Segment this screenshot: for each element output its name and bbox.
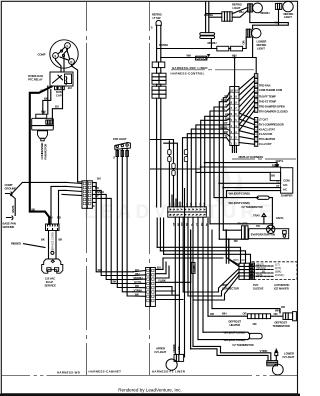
control board connector xyxy=(168,207,207,217)
wire corner x163.5 xyxy=(164,143,178,207)
OPTION box xyxy=(196,56,207,60)
wire relay to BK thick left xyxy=(30,87,52,225)
svg-text:C: C xyxy=(66,44,68,48)
svg-text:YL/BK: YL/BK xyxy=(158,278,166,282)
defrost terminator body xyxy=(283,313,293,320)
ff thermistor capsule xyxy=(256,196,269,199)
power plug body xyxy=(42,259,63,273)
wire refrig sw lead 2 xyxy=(160,25,162,57)
svg-text:GN/YL: GN/YL xyxy=(276,216,284,220)
svg-text:HARNESS-WD: HARNESS-WD xyxy=(57,370,80,374)
svg-text:BU: BU xyxy=(97,177,101,181)
svg-text:BK: BK xyxy=(41,88,45,92)
wire cap drop RD/WH xyxy=(210,39,212,49)
lower refrig bulb socket xyxy=(246,29,251,37)
nested wire 5 xyxy=(205,114,230,208)
plug prong slots xyxy=(47,268,59,272)
overload PTC relay box xyxy=(50,72,73,86)
svg-text:BK: BK xyxy=(32,208,36,212)
refrig light bulb 2 socket xyxy=(275,3,281,9)
pin strip lower xyxy=(254,118,257,147)
svg-text:BK: BK xyxy=(271,174,275,178)
condenser fan motor body xyxy=(32,118,54,130)
bottom title bar xyxy=(0,394,300,396)
wire frz switch 1 xyxy=(117,149,133,288)
svg-text:PK: PK xyxy=(256,224,260,228)
svg-text:LIGHT: LIGHT xyxy=(233,6,241,10)
refrig light bulb 1 glass xyxy=(253,3,263,13)
svg-text:YL: YL xyxy=(276,180,280,184)
wire WH to RS1 top xyxy=(253,58,257,74)
svg-text:PK (OR): PK (OR) xyxy=(238,222,248,226)
top feed wires xyxy=(206,2,209,33)
damper YL VT wires xyxy=(219,183,280,197)
svg-text:HC: HC xyxy=(283,187,287,191)
junction dot PK feed xyxy=(225,229,227,231)
svg-text:FZ THERMISTOR: FZ THERMISTOR xyxy=(233,343,254,347)
refrig light switch dome xyxy=(156,20,161,25)
svg-text:COM: COM xyxy=(283,178,290,182)
wires bulb loop xyxy=(250,9,288,28)
svg-text:C BK: C BK xyxy=(177,346,181,352)
condenser fan motor terminal block xyxy=(46,120,53,124)
relay internal contact arm xyxy=(53,75,63,83)
wire tags above control connector xyxy=(170,202,207,206)
svg-text:TRAY: TRAY xyxy=(253,213,260,217)
relay internal PTC block xyxy=(65,74,72,84)
svg-text:Rendered by LeadVenture, Inc.: Rendered by LeadVenture, Inc. xyxy=(118,388,182,393)
svg-text:OR: OR xyxy=(243,311,247,315)
wire R into connector xyxy=(78,181,82,183)
svg-text:BU: BU xyxy=(182,202,184,206)
svg-text:FZ LIGHT: FZ LIGHT xyxy=(155,350,167,354)
junction dot PK feed 2 xyxy=(228,238,230,240)
svg-text:FZ LIGHT: FZ LIGHT xyxy=(283,355,295,359)
wire to lower refrig bulb xyxy=(243,37,247,48)
wire comp ground GN/YL xyxy=(11,195,16,216)
svg-text:LT SW: LT SW xyxy=(153,16,161,20)
svg-text:HARNESS-FZ LINER: HARNESS-FZ LINER xyxy=(152,370,186,374)
svg-text:COMP: COMP xyxy=(38,53,46,57)
svg-text:BK: BK xyxy=(41,238,45,242)
service cord lines xyxy=(49,231,57,259)
svg-text:RD: RD xyxy=(234,239,238,243)
wire WH junction to display conn xyxy=(234,58,236,87)
refrig light bulb 1 socket xyxy=(248,4,253,12)
compressor terminal C xyxy=(65,43,71,49)
long row 3 xyxy=(164,254,251,263)
svg-text:RD/WH: RD/WH xyxy=(159,43,168,47)
wire x169.4 xyxy=(168,141,170,207)
wire tray row xyxy=(210,223,272,225)
wire cord WH up xyxy=(51,186,66,224)
svg-text:GY: GY xyxy=(195,202,197,206)
wire tray down xyxy=(263,217,265,224)
svg-text:BK: BK xyxy=(135,293,139,297)
junction dot GN/YL damper xyxy=(204,162,206,164)
svg-text:RD/WH: RD/WH xyxy=(261,11,270,15)
compressor terminal R xyxy=(69,59,75,65)
connector block pair B xyxy=(152,86,166,98)
wire to damper BK block xyxy=(196,171,270,173)
svg-text:RY2-HEATER: RY2-HEATER xyxy=(259,137,275,141)
frz light switch body xyxy=(115,143,131,150)
wire compressor C to relay xyxy=(64,48,68,72)
wires into FZ connector xyxy=(133,271,146,297)
nested wire 6 xyxy=(201,119,230,207)
compressor terminal S xyxy=(53,53,59,59)
door cap element bar 1 xyxy=(200,33,215,36)
svg-text:GROUND: GROUND xyxy=(3,225,15,229)
svg-text:DISPLAY HARNESS: DISPLAY HARNESS xyxy=(239,155,264,159)
svg-text:GY: GY xyxy=(95,194,99,198)
svg-text:#1-L2 CKT: #1-L2 CKT xyxy=(259,142,272,146)
defrost heater row wire xyxy=(208,315,283,317)
svg-text:TRD-DAMPER OPEN: TRD-DAMPER OPEN xyxy=(259,104,285,108)
svg-text:RD/WH: RD/WH xyxy=(208,41,217,45)
wires display conn bottom stubs xyxy=(232,146,236,153)
svg-text:OR: OR xyxy=(241,40,245,44)
svg-text:GROUND: GROUND xyxy=(5,186,17,190)
wire BK into condenser top xyxy=(47,86,49,114)
svg-text:CAP: CAP xyxy=(56,94,62,98)
row to 9wp 1 xyxy=(183,269,239,293)
junction dot VT xyxy=(222,187,224,189)
svg-text:YL/BK: YL/BK xyxy=(192,265,196,273)
svg-text:COM-THERM COM: COM-THERM COM xyxy=(259,88,283,92)
fz thermistor capsule xyxy=(250,333,263,338)
wire tags below control connector xyxy=(174,222,209,226)
wire sw leads through blocks xyxy=(157,49,161,87)
svg-text:HARNESS-CONTROL: HARNESS-CONTROL xyxy=(171,72,205,76)
junction dot RD damper xyxy=(200,166,202,168)
connector WD-cabinet block xyxy=(82,181,92,209)
nested wire 4 xyxy=(210,108,230,224)
chain line display harness boundary xyxy=(232,158,296,160)
svg-text:#3-AC1 STAT: #3-AC1 STAT xyxy=(259,127,275,131)
svg-text:TN: TN xyxy=(200,202,202,205)
svg-text:OPTION: OPTION xyxy=(197,56,208,60)
svg-text:SERVICE: SERVICE xyxy=(45,283,57,287)
svg-text:BU: BU xyxy=(55,105,59,109)
svg-text:S: S xyxy=(113,156,115,160)
diagonals display conn to strips xyxy=(239,76,254,144)
compressor COMP circle xyxy=(50,40,78,68)
wire frz switch 2 xyxy=(122,149,133,292)
run capacitor xyxy=(55,86,65,89)
svg-text:PK: PK xyxy=(204,202,206,205)
wires control conn bottom xyxy=(157,218,163,254)
wire corner x173.5 xyxy=(150,140,173,208)
svg-text:BK: BK xyxy=(59,238,63,242)
svg-text:DAMPER: DAMPER xyxy=(281,194,293,198)
nested wire 8 xyxy=(191,129,230,207)
svg-text:THD-FZ TEMP: THD-FZ TEMP xyxy=(259,99,277,103)
svg-text:SLEEVE: SLEEVE xyxy=(253,286,264,290)
svg-text:ICE MAKER: ICE MAKER xyxy=(274,286,289,290)
wires control conn top stubs xyxy=(172,195,180,207)
ice maker dashed box xyxy=(252,262,297,280)
svg-text:OR: OR xyxy=(210,312,214,316)
svg-text:RD: RD xyxy=(272,163,276,167)
control conn pin numbers xyxy=(169,209,205,217)
wires into block xyxy=(206,14,222,18)
svg-text:WH: WH xyxy=(98,268,103,272)
svg-text:TL: TL xyxy=(222,107,226,111)
nested wire 1 xyxy=(223,92,230,230)
ff thermistor wire xyxy=(214,197,258,199)
door cap element bar 2 xyxy=(200,36,215,39)
svg-text:WH: WH xyxy=(222,311,227,315)
svg-text:S: S xyxy=(151,26,153,30)
svg-text:VT/RD: VT/RD xyxy=(260,349,268,353)
9wp connector block xyxy=(239,263,255,279)
damper motor box xyxy=(281,168,293,194)
wire run cap to condenser fan BK xyxy=(43,90,51,115)
base pan ground symbol xyxy=(7,216,14,220)
svg-text:SERVICE CORD: SERVICE CORD xyxy=(50,232,54,252)
wire left leads down to control conn xyxy=(157,98,161,207)
wire GN/YL to damper xyxy=(205,162,277,164)
wire thermistor to evap loop xyxy=(269,198,272,229)
light switch block top xyxy=(222,12,232,21)
svg-text:HARNESS-REF LINER: HARNESS-REF LINER xyxy=(172,66,208,70)
inline tag capsules on wire x169.4 xyxy=(168,150,188,176)
ice maker internal dashes xyxy=(256,266,273,276)
svg-text:VT/BK: VT/BK xyxy=(221,98,229,102)
inline tag capsules on wire x173.5 xyxy=(172,163,175,168)
defrost heater element xyxy=(247,314,270,319)
row to 9wp 2 xyxy=(188,272,239,296)
svg-text:FAN MOTOR: FAN MOTOR xyxy=(44,144,48,160)
tray symbol xyxy=(262,213,266,216)
wire PK top xyxy=(223,229,248,231)
upper fz light glass xyxy=(166,359,177,370)
nested wire 10 xyxy=(183,138,230,207)
strain relief arrow xyxy=(43,112,45,115)
junction dot YL xyxy=(218,182,220,184)
damper inner block BK xyxy=(270,172,280,180)
svg-text:OR: OR xyxy=(281,305,285,309)
wire long horizontal y169 xyxy=(150,168,199,170)
cord grommet circle xyxy=(51,251,54,254)
svg-text:LT CKT: LT CKT xyxy=(259,118,268,122)
svg-text:RD/BU: RD/BU xyxy=(220,125,228,129)
svg-text:R: R xyxy=(70,60,72,64)
display conn pin numbers xyxy=(230,89,238,146)
svg-text:VT: VT xyxy=(276,184,280,188)
chain line ref liner / control boundary xyxy=(171,69,254,71)
svg-text:BU: BU xyxy=(225,117,229,121)
wires down to 9WP xyxy=(226,230,229,263)
svg-text:TRD-FAN: TRD-FAN xyxy=(259,83,271,87)
wire frz switch 3 xyxy=(127,148,133,296)
lower fz light wires xyxy=(191,346,271,360)
svg-text:BK: BK xyxy=(262,271,266,274)
svg-text:RD: RD xyxy=(178,202,180,206)
svg-text:YL: YL xyxy=(225,103,229,107)
svg-text:(WH): (WH) xyxy=(257,274,263,277)
evap fan symbol xyxy=(267,225,275,233)
inline connector pair on RD/WH xyxy=(217,46,229,51)
defrost terminator cap xyxy=(293,312,297,321)
svg-text:2(GND): 2(GND) xyxy=(275,274,284,277)
pin strip upper xyxy=(254,74,257,113)
fz thermistor wire top xyxy=(203,332,250,334)
svg-text:YL: YL xyxy=(225,134,229,138)
svg-text:WH (DISP COND): WH (DISP COND) xyxy=(224,330,245,334)
condenser fan motor plug xyxy=(38,131,48,139)
chain line harness bottom horizontal xyxy=(2,374,297,376)
svg-text:BU: BU xyxy=(68,86,72,90)
inline connector blocks control left xyxy=(152,62,165,68)
service cord terminal block xyxy=(46,224,60,231)
svg-text:OR/BK: OR/BK xyxy=(172,344,176,353)
svg-text:RIBBED: RIBBED xyxy=(11,242,21,246)
wire connector right bundle xyxy=(92,186,133,283)
svg-text:WH: WH xyxy=(239,10,244,14)
wire cord RD up xyxy=(59,190,67,224)
svg-text:(WH): (WH) xyxy=(233,259,239,262)
inline connector pk small xyxy=(191,262,195,273)
svg-text:CONNECTOR: CONNECTOR xyxy=(222,286,239,290)
svg-text:(GN): (GN) xyxy=(241,259,246,262)
svg-text:WH: WH xyxy=(48,216,53,220)
wire RD/WH run xyxy=(157,48,217,50)
nested wire 9 xyxy=(187,134,230,207)
wires block to bulb1 xyxy=(232,8,247,18)
svg-text:WH: WH xyxy=(187,53,192,57)
upper fz light socket xyxy=(174,354,184,361)
svg-text:WH (DISP COND): WH (DISP COND) xyxy=(224,338,245,342)
wires left diagonals into connector xyxy=(62,182,82,195)
nested wire 7 xyxy=(196,125,230,208)
condenser fan motor cap xyxy=(36,114,47,118)
stub rows xyxy=(155,269,190,299)
svg-text:GN/YL: GN/YL xyxy=(11,205,15,213)
compressor internal contacts xyxy=(60,50,62,52)
svg-text:WH (DISP COND): WH (DISP COND) xyxy=(229,192,250,196)
svg-text:#4-AC2 DR: #4-AC2 DR xyxy=(259,132,272,136)
nested wire 3 xyxy=(214,103,230,198)
display board connector xyxy=(230,87,239,146)
junction dot WH line at display drop xyxy=(234,56,236,58)
connector block pair A xyxy=(152,73,166,84)
long row 2 xyxy=(160,251,245,263)
svg-text:HARNESS-CABINET: HARNESS-CABINET xyxy=(89,370,122,374)
fuse link symbol xyxy=(275,350,278,352)
frz light switch contacts xyxy=(116,145,118,147)
nested wire 2 xyxy=(219,97,230,239)
svg-text:S: S xyxy=(54,54,56,58)
wire terminator top feed xyxy=(212,309,280,313)
svg-text:WH: WH xyxy=(275,309,280,313)
inline connector bars PK xyxy=(242,226,245,239)
wire relay to condenser fan BU xyxy=(52,86,62,120)
refrig light bulb 2 glass xyxy=(283,1,293,11)
svg-text:OR: OR xyxy=(253,322,257,326)
wire WH run xyxy=(161,57,253,59)
long row 1 xyxy=(157,247,240,263)
lower fz light glass xyxy=(272,364,283,375)
svg-text:RY1-COMPRESSOR: RY1-COMPRESSOR xyxy=(259,122,284,126)
junction dot tray row xyxy=(271,223,273,225)
wire refrig sw lead 1 xyxy=(156,25,158,48)
wire upper light extra xyxy=(184,188,186,357)
evaporator fan box xyxy=(249,229,289,239)
svg-text:BU: BU xyxy=(157,265,161,269)
junction arrow on WH xyxy=(207,54,210,57)
plug hole xyxy=(51,260,54,263)
lower refrig bulb glass xyxy=(252,29,261,38)
svg-text:TERMINATOR: TERMINATOR xyxy=(273,324,290,328)
chain line harness boundary vertical left xyxy=(86,2,88,375)
comp ground symbol xyxy=(6,192,13,196)
lower fz light socket xyxy=(267,361,278,366)
wire compressor S to relay xyxy=(56,58,62,72)
svg-text:FZ THERMISTOR: FZ THERMISTOR xyxy=(242,205,263,209)
wire connector right 1 xyxy=(92,183,96,187)
watermark flame xyxy=(213,165,242,207)
svg-text:WH: WH xyxy=(174,202,176,206)
svg-text:BK: BK xyxy=(170,202,172,206)
wire tags on switch leads xyxy=(116,151,119,157)
connector cabinet-FZ liner block xyxy=(146,268,156,307)
damper ground stub xyxy=(276,163,278,165)
row to 9wp 3 xyxy=(193,276,239,301)
chain line harness boundary vertical middle xyxy=(149,2,151,375)
svg-text:LIGHT: LIGHT xyxy=(284,15,292,19)
svg-text:FRZ LIGHT: FRZ LIGHT xyxy=(113,137,127,141)
compressor internal windings xyxy=(58,48,70,61)
control bottom verticals xyxy=(175,217,179,354)
wire compressor R down xyxy=(72,64,78,181)
svg-text:PTC RELAY: PTC RELAY xyxy=(28,78,43,82)
fz thermistor wire bottom xyxy=(198,338,250,340)
svg-text:HEATER: HEATER xyxy=(230,323,241,327)
wire RD to damper xyxy=(201,166,281,168)
svg-text:TH3-FF TEMP: TH3-FF TEMP xyxy=(259,95,276,99)
ice maker pin labels xyxy=(257,264,284,278)
svg-text:LIGHT: LIGHT xyxy=(257,46,265,50)
svg-text:WH: WH xyxy=(275,21,280,25)
svg-text:TRY-DAMPER CLOSED: TRY-DAMPER CLOSED xyxy=(259,110,288,114)
wire PK bottom RD xyxy=(219,238,248,240)
evap ground pin xyxy=(283,231,287,234)
wire ground to cabinet connector xyxy=(11,182,67,195)
svg-text:EVAPORATOR FAN: EVAPORATOR FAN xyxy=(251,232,275,236)
wire lower bulb to WH run xyxy=(252,37,254,57)
inline tag capsules on wire x186 xyxy=(184,150,187,155)
svg-text:BK: BK xyxy=(113,280,117,284)
